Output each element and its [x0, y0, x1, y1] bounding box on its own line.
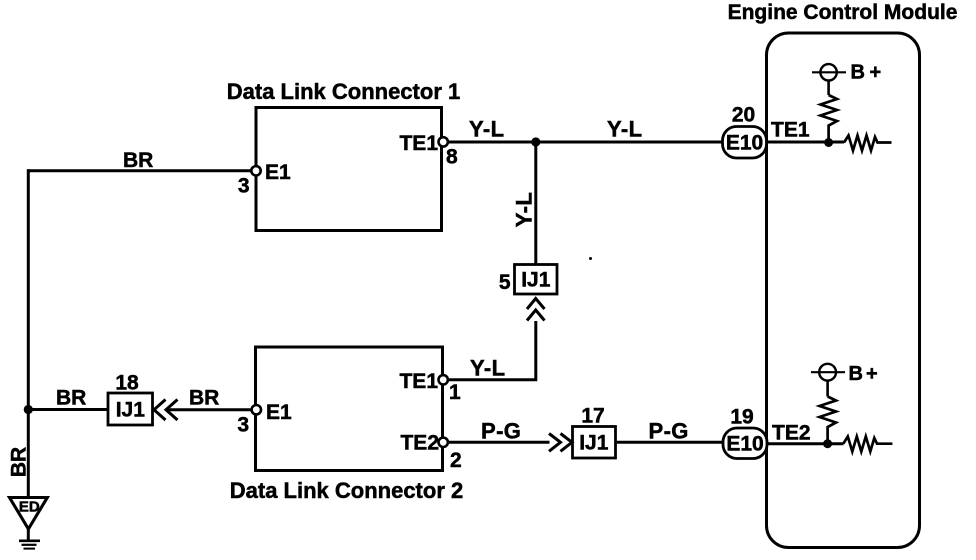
resistor horizontal (ECM TE2) [843, 437, 892, 452]
svg-text:BR: BR [123, 149, 153, 172]
svg-text:2: 2 [450, 449, 462, 472]
terminal circle DLC2 E1 pin 3 [252, 405, 261, 414]
svg-text:TE1: TE1 [399, 370, 438, 393]
ground symbol ED (triangle) [10, 498, 48, 530]
arrow chevrons pointing left into IJ1 18 [154, 400, 178, 421]
arrow chevrons pointing up into IJ1 5 [527, 299, 545, 321]
svg-text:BR: BR [56, 387, 86, 410]
terminal circle DLC1 E1 pin 3 [251, 166, 260, 175]
wire ECM TE2 internal [767, 442, 844, 445]
svg-text:Engine Control Module: Engine Control Module [728, 1, 958, 24]
wire Y-L vertical drop to IJ1 5 [534, 142, 537, 265]
scan speck [589, 257, 592, 260]
svg-text:8: 8 [446, 146, 458, 169]
svg-text:19: 19 [730, 406, 753, 429]
wire B+ drop (top) [827, 80, 830, 95]
svg-text:E1: E1 [265, 161, 291, 184]
svg-text:20: 20 [732, 104, 755, 127]
svg-text:Y-L: Y-L [607, 117, 642, 142]
terminal circle DLC2 TE1 pin 1 [439, 375, 448, 384]
svg-text:P-G: P-G [649, 419, 689, 444]
power B+ symbol (bottom): circle with bar [811, 364, 845, 381]
svg-text:TE1: TE1 [771, 119, 810, 142]
wire ground stem [27, 530, 30, 540]
wire ECM TE1 internal [767, 141, 845, 144]
wire B+ drop (bottom) [826, 381, 829, 397]
terminal circle DLC2 TE2 pin 2 [439, 438, 448, 447]
wire BR horizontal (DLC1 E1 to left run) [27, 169, 252, 172]
svg-text:Y-L: Y-L [470, 356, 505, 381]
svg-text:ED: ED [19, 499, 40, 516]
wire chevrons to DLC2 E1 [167, 408, 252, 411]
wire left vertical BR run [27, 169, 30, 497]
junction connector IJ1 box (17) [573, 427, 616, 459]
wire from DLC2 TE1 up to chevrons [448, 321, 536, 380]
svg-text:5: 5 [499, 271, 511, 294]
wire BR junction to IJ1 18 [28, 408, 108, 411]
terminal circle DLC1 TE1 pin 8 [439, 137, 448, 146]
ground hatch lines [19, 541, 40, 549]
arrow chevrons pointing right into IJ1 17 [549, 434, 572, 452]
ECM box (Engine Control Module outline) [767, 33, 920, 548]
power B+ symbol (top): circle with bar [812, 64, 846, 80]
connector DLC1 box [256, 108, 442, 231]
connector oval E10 (pin 20) [723, 127, 767, 159]
svg-text:17: 17 [581, 405, 604, 428]
svg-text:3: 3 [238, 175, 250, 198]
resistor vertical (ECM TE1 pull-up) [821, 95, 838, 140]
node junction dot (Y-L tee) [531, 137, 540, 146]
resistor horizontal (ECM TE1) [844, 136, 892, 151]
svg-text:IJ1: IJ1 [579, 432, 609, 455]
svg-text:Data Link Connector 2: Data Link Connector 2 [230, 478, 463, 503]
svg-text:IJ1: IJ1 [521, 269, 551, 292]
svg-text:IJ1: IJ1 [116, 399, 146, 422]
svg-text:Y-L: Y-L [469, 117, 504, 142]
svg-text:TE2: TE2 [772, 422, 811, 445]
svg-text:BR: BR [189, 387, 219, 410]
node junction dot (ECM TE1) [824, 138, 833, 147]
svg-text:18: 18 [115, 372, 139, 395]
connector DLC2 box [256, 347, 443, 471]
svg-text:TE1: TE1 [399, 132, 438, 155]
resistor vertical (ECM TE2 pull-up) [820, 397, 837, 442]
svg-text:3: 3 [237, 414, 249, 437]
svg-text:1: 1 [449, 381, 461, 404]
svg-text:Data Link Connector 1: Data Link Connector 1 [227, 79, 460, 104]
node junction dot (BR tee) [24, 405, 33, 414]
connector oval E10 (pin 19) [723, 428, 767, 459]
wire P-G from DLC2 TE2 to chevrons [448, 441, 550, 444]
svg-text:P-G: P-G [481, 419, 521, 444]
junction connector IJ1 box (18) [108, 393, 153, 425]
svg-text:E10: E10 [726, 132, 763, 155]
junction connector IJ1 box (5) [515, 265, 558, 295]
svg-text:BR: BR [8, 447, 31, 477]
svg-text:TE2: TE2 [400, 432, 439, 455]
wire Y-L from DLC1 TE1 to ECM E10 pin 20 [448, 141, 723, 144]
node junction dot (ECM TE2) [823, 439, 832, 448]
svg-text:E10: E10 [726, 433, 763, 456]
svg-text:E1: E1 [266, 401, 292, 424]
wire P-G from IJ1 17 to ECM E10 pin 19 [616, 441, 724, 444]
svg-text:Y-L: Y-L [512, 192, 537, 227]
